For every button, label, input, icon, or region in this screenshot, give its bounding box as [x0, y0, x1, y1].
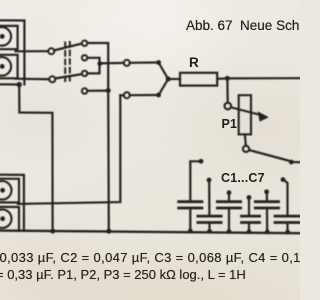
- vertical wire down to output jacks: [18, 95, 120, 204]
- jack J4 contact circle: [0, 209, 12, 228]
- jack J2 housing: [0, 55, 18, 79]
- jack J2 center pin: [0, 64, 5, 69]
- capacitor C2 plates: [198, 216, 221, 222]
- ground wire from shield box: [0, 84, 53, 231]
- switch contact 2: [82, 55, 87, 60]
- diagonal wire a to node R: [159, 63, 168, 79]
- wire jack J1 to switch S1a: [16, 50, 49, 52]
- junction dot contact4 on vertical bus: [106, 88, 111, 93]
- C1 contact dot: [199, 159, 204, 164]
- jack J3 center pin: [0, 188, 5, 193]
- ground junction dot on bottom bus: [50, 229, 55, 234]
- jack J3 housing: [0, 179, 19, 203]
- jack J3 contact circle: [0, 181, 12, 200]
- junction dot a: [156, 60, 161, 65]
- C2 bus dot: [207, 229, 212, 234]
- capacitor C4 top lead: [248, 200, 250, 215]
- wire junction down to P1: [226, 78, 229, 102]
- capacitor C1 plates: [179, 202, 202, 208]
- junction dot R output: [225, 76, 230, 81]
- title caption Abb. 67: [186, 19, 299, 33]
- C3 contact dot: [227, 190, 232, 195]
- wire S2a to junction: [130, 61, 156, 63]
- svg-text:P1: P1: [222, 117, 238, 131]
- switch contact 3: [82, 71, 87, 76]
- C1 bus dot: [188, 229, 193, 234]
- C5 contact dot: [264, 189, 269, 194]
- selector pivot terminal: [243, 146, 249, 152]
- svg-text:R: R: [189, 55, 199, 70]
- switch contact 4: [82, 88, 87, 93]
- selector wiper arm: [249, 150, 288, 161]
- diagonal wire b to node R: [159, 79, 168, 95]
- junction dot vertical on bottom bus: [106, 229, 111, 234]
- switch S1a wiper arm: [54, 44, 81, 51]
- capacitor C3 top lead: [228, 195, 230, 201]
- jack J4 housing: [0, 207, 19, 231]
- wire resistor R to junction: [217, 77, 225, 80]
- S2 terminal b (open circle): [124, 92, 130, 98]
- jack J2 contact circle: [0, 57, 11, 76]
- wire jack J2 to switch S1b: [16, 78, 50, 81]
- capacitor C5 plates: [255, 202, 278, 208]
- jack J1 center pin: [0, 34, 5, 39]
- switch S1b wiper arm: [55, 74, 81, 78]
- resistor R body: [180, 73, 217, 86]
- stub wire contact7 to right edge: [291, 161, 300, 164]
- switch S1a pivot: [48, 48, 54, 54]
- wire P1 bottom to selector pivot: [244, 134, 247, 145]
- jack J1 housing: [0, 26, 18, 49]
- capacitor C2 top lead: [208, 182, 210, 215]
- S2 terminal a (open circle): [124, 60, 130, 66]
- long vertical wire to bottom bus: [107, 91, 110, 231]
- C5 bus dot: [265, 230, 270, 235]
- capacitor C6 plates: [275, 216, 300, 222]
- C6 contact dot: [281, 177, 286, 182]
- C4 bottom lead: [248, 224, 250, 232]
- junction dot b: [156, 93, 161, 98]
- C6 bus dot: [285, 230, 290, 235]
- selector contact 7 dot: [289, 160, 294, 165]
- P1 input terminal: [225, 103, 232, 110]
- capacitor C1 top lead: [190, 161, 198, 200]
- C3 bottom lead: [228, 209, 230, 231]
- bottom bus wire: [0, 231, 300, 234]
- node at R input: [166, 77, 171, 82]
- C2 contact dot: [207, 178, 212, 183]
- jack J4 center pin: [0, 216, 5, 221]
- wire node to S2 terminal a: [100, 62, 124, 65]
- node joining contacts 2+3: [97, 61, 102, 66]
- C2 bottom lead: [208, 224, 210, 231]
- input shield box (upper jack pair enclosure): [0, 20, 24, 84]
- P1 wiper arrow shaft: [231, 107, 260, 114]
- capacitor C4 plates: [242, 216, 260, 222]
- wire contact3 joining node: [87, 64, 99, 73]
- P1 wiper arrowhead: [258, 111, 269, 121]
- wire junction to right edge: [227, 77, 300, 79]
- C6 bottom lead: [286, 224, 288, 232]
- C5 bottom lead: [266, 209, 268, 232]
- wire node to resistor R: [168, 78, 180, 80]
- C1 bottom lead: [189, 209, 191, 231]
- C4 contact dot: [247, 195, 252, 200]
- jack J1 contact circle: [0, 27, 11, 46]
- wire S2b to junction: [130, 94, 156, 96]
- switch contact 1: [82, 41, 87, 46]
- wire contact2 joining node: [87, 58, 99, 63]
- capacitor C5 top lead: [266, 194, 268, 201]
- potentiometer P1 body: [239, 95, 251, 134]
- caption line 2: [0, 268, 316, 281]
- ground junction dot at shield box: [17, 82, 22, 87]
- capacitor C3 plates: [217, 202, 240, 208]
- caption line 1: [0, 251, 320, 264]
- wire contact1 to vertical bus: [87, 43, 108, 90]
- wire contact4 to vertical bus: [87, 89, 105, 91]
- wire S2b corner to vertical: [120, 94, 124, 96]
- C4 bus dot: [247, 229, 252, 234]
- C3 bus dot: [227, 229, 232, 234]
- mechanical linkage dashed lines: [65, 42, 70, 81]
- svg-text:C1...C7: C1...C7: [221, 171, 265, 185]
- capacitor C6 top lead: [284, 180, 288, 215]
- output shield box (lower jack pair enclosure): [0, 175, 24, 231]
- switch S1b pivot: [49, 76, 55, 82]
